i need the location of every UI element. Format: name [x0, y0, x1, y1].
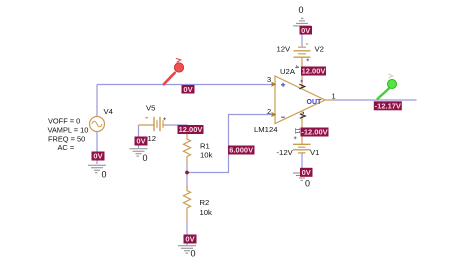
- svg-text:AC =: AC =: [58, 143, 75, 152]
- bias label 0V under V5: [135, 137, 148, 146]
- ground above V2 (mirrored): [293, 18, 311, 26]
- wire: V2 ground stub through 0V label to battery top: [301, 26, 303, 47]
- svg-text:R1: R1: [200, 142, 210, 151]
- svg-text:10k: 10k: [200, 151, 213, 160]
- sine source V4: [90, 117, 105, 132]
- V- chevron (rotated V of V-): [300, 114, 306, 119]
- op-amp U2A triangle: [275, 76, 325, 124]
- op-amp V+ pin: [301, 57, 303, 89]
- bias label 6.000V at feedback node: [228, 146, 255, 155]
- svg-text:0V: 0V: [302, 168, 311, 177]
- svg-text:0V: 0V: [301, 26, 310, 35]
- svg-text:-12V: -12V: [277, 148, 294, 157]
- bias label 0V under V4: [92, 152, 105, 161]
- op-amp V- pin: [301, 111, 303, 144]
- V2 polarity marks: [306, 44, 309, 61]
- svg-text:0: 0: [102, 170, 107, 180]
- svg-text:OUT: OUT: [307, 99, 323, 106]
- wire: R2 bottom to ground: [186, 221, 188, 245]
- wire: main horizontal net from V4 to op-amp pin 3: [97, 84, 272, 86]
- op-amp input arrowhead pin 2: [272, 112, 277, 117]
- op-amp output pin stub: [325, 99, 334, 101]
- svg-text:2: 2: [267, 107, 271, 116]
- wire: V4 top stub up to main wire: [96, 85, 98, 117]
- svg-text:VAMPL = 10: VAMPL = 10: [48, 126, 89, 135]
- battery V2: [294, 47, 311, 57]
- V1 polarity marks: [294, 136, 297, 139]
- ground under V1: [293, 173, 311, 180]
- svg-text:-12.17V: -12.17V: [375, 101, 401, 110]
- svg-text:10k: 10k: [200, 208, 213, 217]
- V- dash mark: [302, 112, 304, 114]
- svg-text:R2: R2: [200, 198, 210, 207]
- wire: junction down to R2 top: [186, 173, 188, 190]
- battery V1: [293, 144, 311, 153]
- bias label 0V under V1: [300, 168, 313, 177]
- svg-text:12.00V: 12.00V: [302, 67, 326, 76]
- battery V5: [139, 117, 167, 131]
- node junction dot at R1/R2/feedback: [185, 171, 189, 175]
- svg-text:0V: 0V: [93, 152, 102, 161]
- ground under V5: [130, 149, 148, 156]
- svg-text:0: 0: [143, 153, 148, 163]
- svg-text:0V: 0V: [183, 85, 192, 94]
- wire: V1 bottom to ground: [301, 153, 303, 171]
- svg-text:0V: 0V: [136, 137, 145, 146]
- minus mark inside op-amp: [281, 116, 285, 118]
- wire: R1 bottom to junction: [186, 164, 188, 173]
- svg-text:LM124: LM124: [254, 125, 278, 134]
- bias label 0V under R2: [184, 235, 197, 244]
- svg-text:0V: 0V: [185, 235, 194, 244]
- svg-text:0: 0: [191, 249, 196, 259]
- voltage probe marker (red): [164, 58, 184, 84]
- svg-text:3: 3: [267, 75, 271, 84]
- svg-text:-12.00V: -12.00V: [301, 128, 327, 137]
- svg-text:U2A: U2A: [280, 67, 296, 76]
- ground under V4: [88, 165, 106, 172]
- wire: V5 right terminal to R1 top corner: [167, 125, 188, 133]
- voltage probe marker (green): [378, 74, 397, 99]
- V5 polarity marks: [146, 117, 167, 120]
- svg-text:12.00V: 12.00V: [179, 125, 203, 134]
- wire: junction right then up to op-amp pin 2: [187, 115, 272, 173]
- bias label 12.00V at V+: [301, 67, 326, 76]
- resistor R2: [184, 186, 191, 221]
- svg-text:11: 11: [294, 128, 300, 135]
- bias label 0V on main wire: [182, 85, 195, 94]
- svg-text:0: 0: [299, 5, 304, 15]
- op-amp input arrowhead pin 3: [272, 82, 277, 87]
- bias label 0V above V2: [300, 26, 313, 35]
- bias label -12.00V at V-: [301, 128, 329, 137]
- svg-text:V4: V4: [104, 107, 114, 116]
- wire: V4 bottom down to ground: [96, 132, 98, 165]
- svg-text:V1: V1: [310, 148, 319, 157]
- wire: op-amp output to right: [333, 99, 417, 101]
- svg-text:V2: V2: [315, 45, 324, 54]
- resistor R1: [184, 133, 191, 164]
- svg-text:12V: 12V: [277, 45, 292, 54]
- svg-text:4: 4: [293, 65, 299, 68]
- bias label -12.17V at output: [374, 101, 402, 110]
- svg-text:VOFF = 0: VOFF = 0: [48, 116, 80, 125]
- svg-text:1: 1: [332, 92, 336, 101]
- svg-text:6.000V: 6.000V: [229, 146, 253, 155]
- plus mark inside op-amp: [281, 83, 285, 87]
- svg-text:0: 0: [305, 179, 310, 189]
- V+ plus mark: [300, 80, 303, 83]
- svg-text:V5: V5: [146, 104, 155, 113]
- ground under R2: [178, 246, 196, 253]
- svg-text:12: 12: [148, 134, 157, 143]
- bias label 12.00V at V5/R1 node: [178, 125, 204, 134]
- wire: V5 left terminal down to ground: [138, 125, 140, 148]
- V+ chevron (rotated V of V+): [299, 84, 305, 89]
